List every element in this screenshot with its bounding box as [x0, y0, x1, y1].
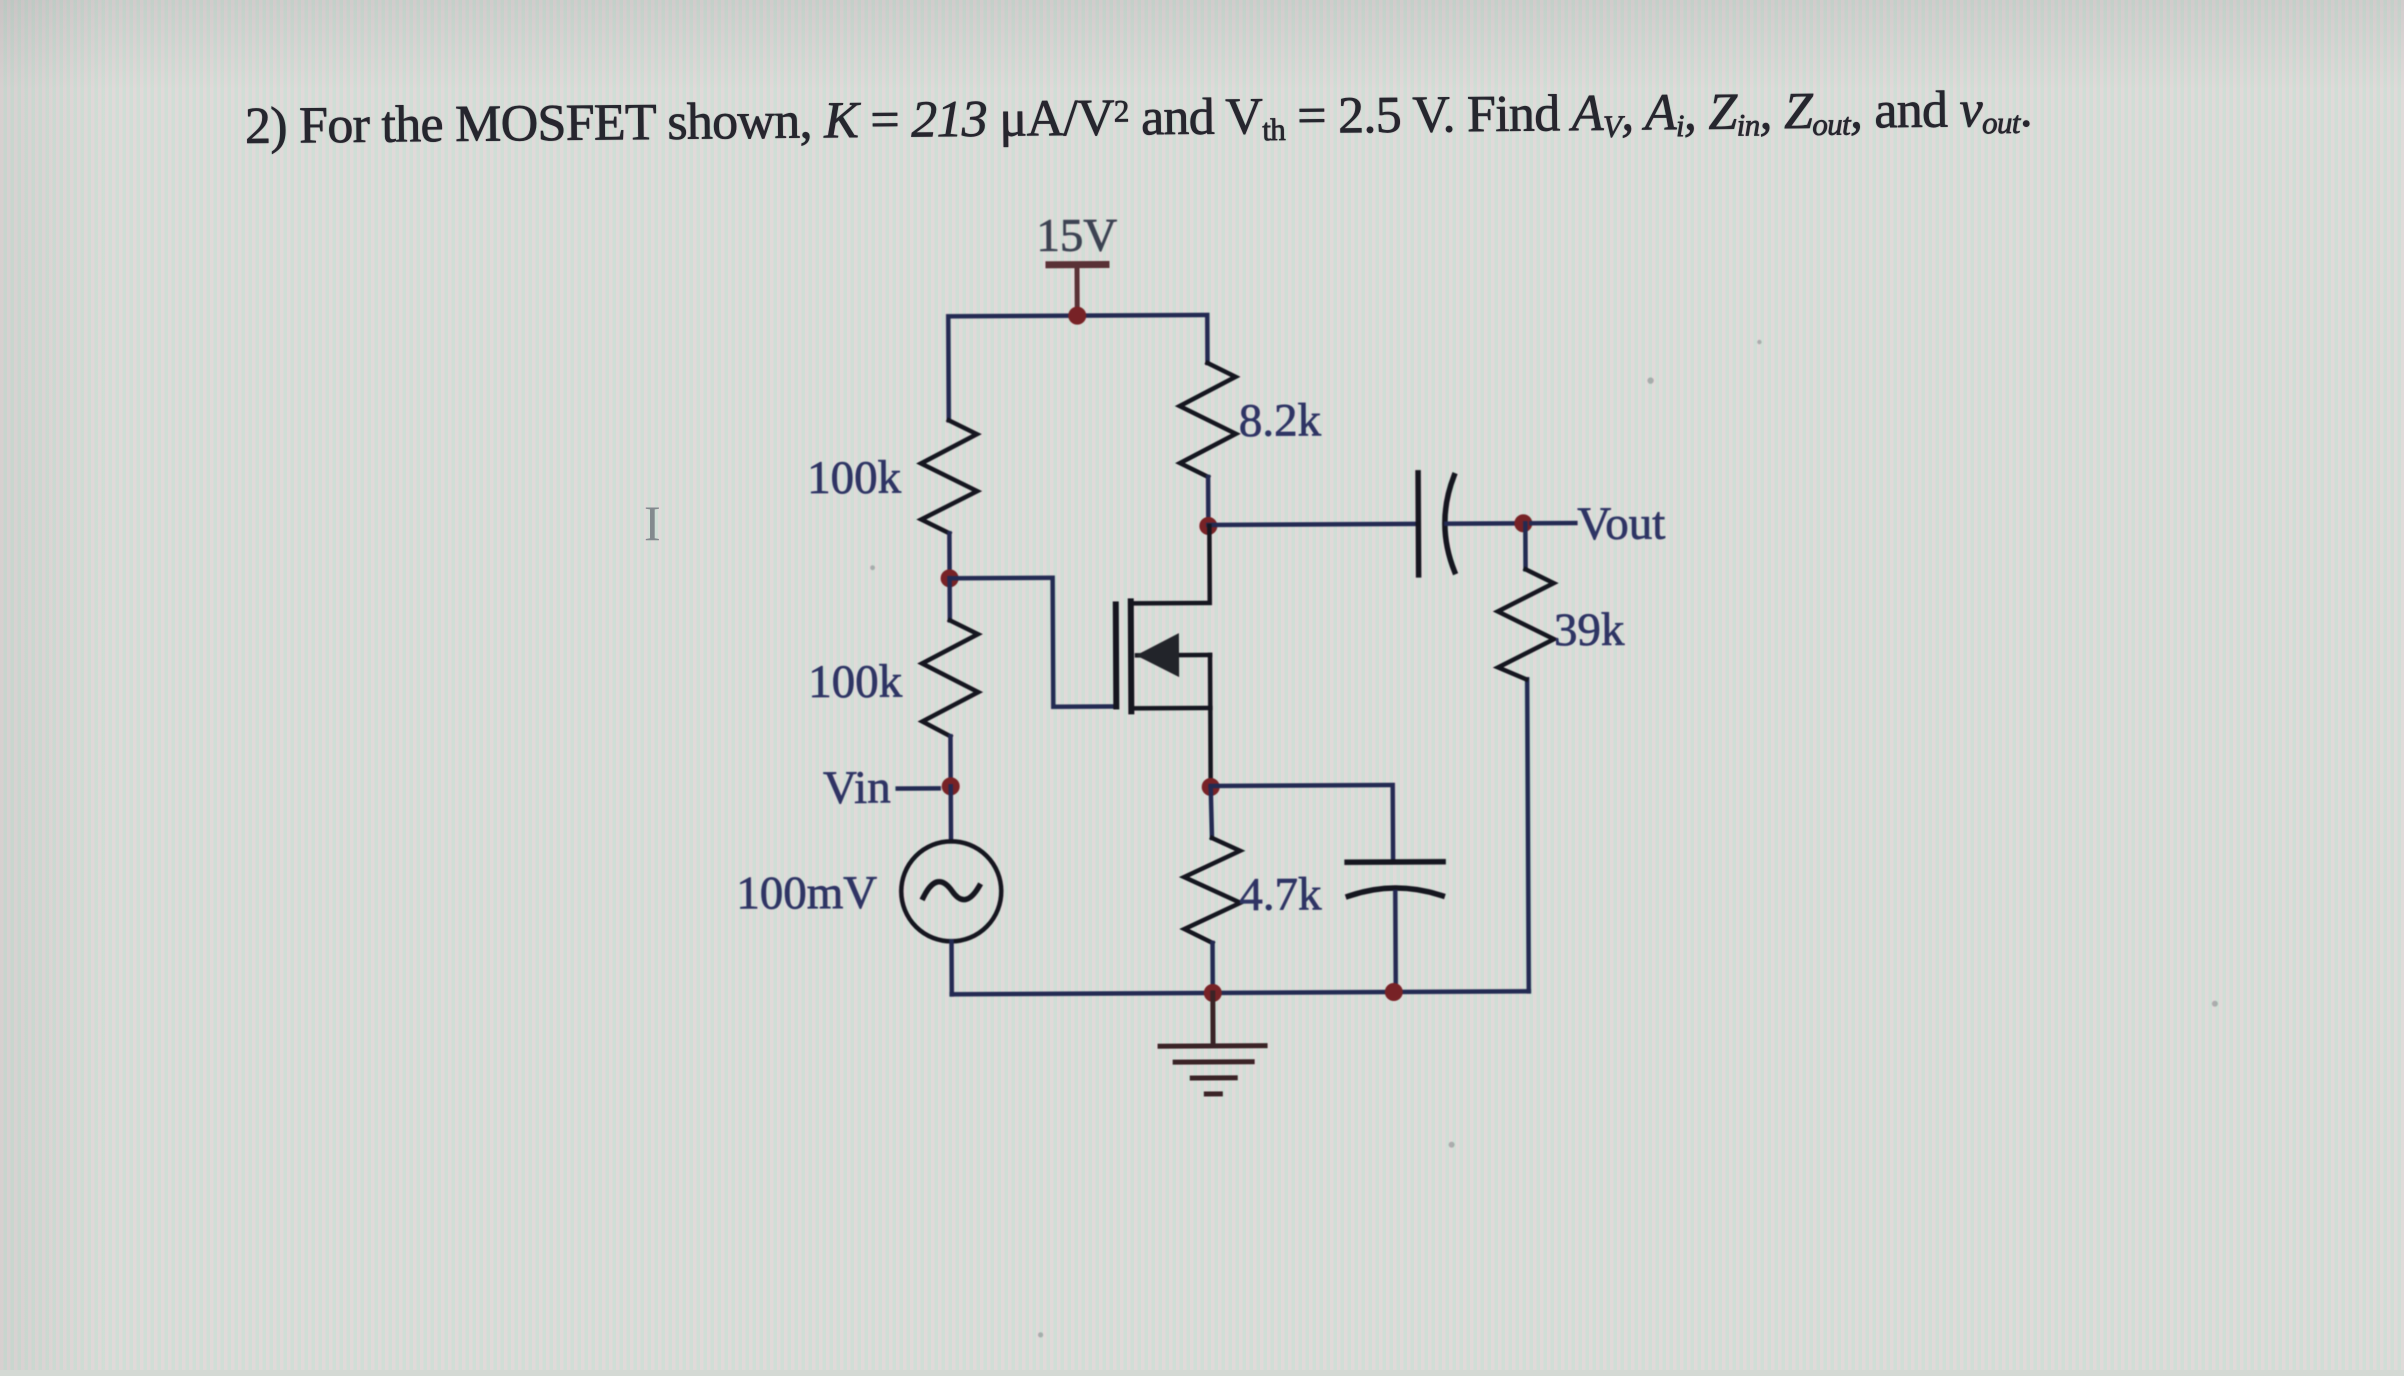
body lead with arrow — [1137, 653, 1210, 658]
wire 4.7k to rail — [1210, 943, 1215, 993]
wire cap to Vout node — [1446, 521, 1515, 526]
node Vin — [942, 777, 960, 795]
wire R1 to gate junction — [947, 533, 952, 578]
wire bottom rail — [952, 991, 1529, 994]
wire junction to R2 — [947, 578, 952, 620]
ground — [1160, 993, 1266, 1095]
node rail-bypass — [1385, 983, 1403, 1001]
wire top rail — [948, 315, 1208, 420]
wire Vin label dash — [898, 786, 939, 791]
resistor R4 39k — [1498, 569, 1555, 679]
node Vout — [1514, 514, 1532, 532]
wire Vin node to source — [948, 786, 953, 841]
text cursor I-beam — [644, 498, 661, 548]
capacitor C2 bypass curved plate — [1348, 888, 1442, 896]
wire source to 4.7k — [1211, 787, 1212, 838]
wire Vout node to 39k — [1523, 523, 1528, 569]
wire source to bottom rail — [949, 941, 954, 994]
arrow of MOSFET body — [1136, 633, 1179, 677]
wire 15V stub — [1074, 265, 1079, 315]
capacitor C2 bypass top plate — [1347, 859, 1443, 865]
node source — [1202, 778, 1220, 796]
capacitor C1 right curved plate — [1445, 476, 1455, 572]
resistor R1 100k upper — [921, 420, 978, 533]
wire 8.2k to drain node — [1206, 477, 1211, 526]
source vertical — [1208, 655, 1213, 787]
source bottom lead — [1131, 706, 1210, 711]
wire bypass cap to rail — [1393, 892, 1398, 992]
wire source node to bypass cap — [1211, 785, 1393, 861]
wire right riser from rail to 39k — [1527, 679, 1529, 991]
wire drain node to coupling cap — [1208, 524, 1416, 525]
node drain — [1199, 517, 1217, 535]
gate plate — [1113, 604, 1120, 706]
wire Vout dash — [1531, 521, 1575, 526]
node gate-divider junction — [941, 569, 959, 587]
capacitor C1 coupling left plate — [1415, 473, 1421, 575]
drain lead — [1130, 526, 1209, 603]
wire R2 to Vin node — [948, 736, 953, 786]
node rail-4.7k — [1204, 984, 1222, 1002]
resistor R3 8.2k — [1179, 363, 1236, 477]
AC source V1 circle — [901, 841, 1002, 942]
resistor R2 100k lower — [922, 620, 979, 736]
AC source sine symbol — [923, 881, 979, 899]
supply 15V bar — [1049, 261, 1106, 268]
title problem statement — [245, 84, 2032, 153]
transistor M1 MOSFET — [949, 526, 1210, 788]
channel plate — [1128, 601, 1135, 711]
gate lead wire — [950, 577, 1115, 707]
node 15V junction — [1068, 307, 1086, 325]
resistor R5 4.7k — [1184, 838, 1241, 943]
